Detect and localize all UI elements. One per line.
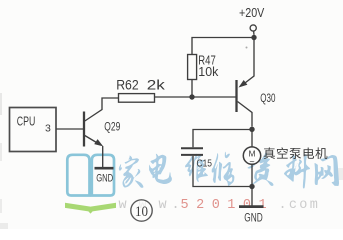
- watermark text 家电维修资料网: [119, 156, 144, 188]
- svg-text:Q29: Q29: [104, 119, 120, 133]
- wire CPU to Q29 base: [56, 128, 83, 130]
- svg-text:C15: C15: [197, 158, 213, 170]
- resistor R47: [188, 55, 197, 80]
- scan speck: [246, 47, 248, 49]
- capacitor C15 top plate: [181, 147, 203, 149]
- transistor Q29 collector: [85, 98, 119, 121]
- wire node to capacitor top: [193, 130, 252, 148]
- scan edge artifacts: [0, 93, 2, 115]
- ground GND (Q29): [95, 167, 114, 170]
- node junction collector/cap/motor: [249, 127, 254, 132]
- wire to ground: [251, 187, 253, 206]
- watermark url www.520101.com: [119, 198, 321, 213]
- svg-text:CPU: CPU: [17, 115, 36, 129]
- svg-text:.com: .com: [279, 198, 321, 213]
- wire R47 top to +20V rail: [192, 38, 254, 55]
- ground GND (motor): [239, 205, 264, 208]
- svg-text:GND: GND: [96, 172, 113, 184]
- watermark book icon pages: [67, 155, 114, 196]
- wire R47 bottom: [191, 80, 193, 98]
- node junction R47/Q30 base: [189, 94, 194, 99]
- svg-text:3: 3: [45, 123, 51, 135]
- svg-text:Q30: Q30: [260, 91, 275, 105]
- +20V terminal: [250, 25, 256, 31]
- wire motor top: [251, 130, 253, 148]
- svg-text:GND: GND: [244, 213, 262, 225]
- svg-text:2k: 2k: [147, 78, 165, 93]
- transistor Q30 base bar: [235, 80, 237, 112]
- node junction +20V rail: [251, 35, 256, 40]
- svg-text:10: 10: [135, 204, 148, 220]
- transistor Q30 emitter with arrow (PNP): [243, 38, 254, 85]
- node junction motor/cap bottom: [249, 184, 254, 189]
- resistor R62: [119, 94, 155, 103]
- label motor 真空泵电机: [264, 147, 275, 159]
- capacitor C15 bottom plate: [181, 154, 203, 156]
- transistor Q29 emitter with arrow: [85, 136, 99, 145]
- wire capacitor bottom: [193, 156, 252, 187]
- transistor Q30 collector: [238, 102, 253, 127]
- motor M circle: [243, 147, 260, 164]
- CPU box U-CPU: [10, 108, 57, 152]
- svg-text:~: ~: [249, 157, 254, 167]
- svg-text:.: .: [172, 198, 180, 213]
- wire Q29 emitter to ground: [102, 146, 104, 168]
- svg-text:+20V: +20V: [239, 6, 265, 20]
- svg-text:R62: R62: [116, 78, 139, 93]
- wire motor bottom: [251, 164, 253, 186]
- watermark page number 10: [131, 200, 152, 221]
- wire R62 to node: [155, 96, 236, 98]
- transistor Q29 base bar: [83, 112, 85, 147]
- svg-text:10k: 10k: [198, 64, 218, 79]
- watermark book green underline: [65, 203, 116, 214]
